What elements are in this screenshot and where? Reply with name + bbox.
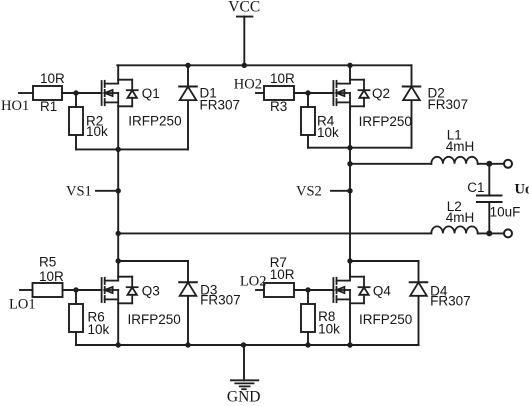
inductor L1: [431, 157, 477, 164]
wire phase B vertical: [349, 106, 351, 276]
node L1 tap junction: [347, 161, 352, 166]
resistor R6: [69, 304, 83, 332]
node rail Q3 junction: [116, 342, 121, 347]
svg-text:VCC: VCC: [228, 0, 260, 16]
node rail R8 junction: [305, 342, 310, 347]
capacitor C1: [477, 164, 502, 234]
node C1 top junction: [486, 161, 492, 167]
svg-text:10k: 10k: [86, 124, 108, 139]
svg-text:IRFP250: IRFP250: [128, 312, 181, 327]
wire LO1 stub: [20, 289, 33, 291]
svg-text:Q3: Q3: [142, 284, 160, 299]
node Q4 drain junction: [347, 258, 352, 263]
node rail Q4 junction: [347, 342, 352, 347]
diode D3: [179, 261, 197, 345]
wire Q3 drain to D3: [118, 260, 188, 262]
resistor R4: [301, 107, 315, 135]
svg-text:LO1: LO1: [9, 297, 36, 313]
wire ground rail: [76, 344, 419, 346]
svg-text:FR307: FR307: [430, 294, 471, 309]
node C1 bottom junction: [486, 230, 492, 236]
node VS1 junction: [116, 188, 121, 193]
node Q2 source junction: [347, 145, 352, 150]
svg-text:R3: R3: [270, 99, 287, 114]
svg-text:Q1: Q1: [142, 86, 160, 101]
diode D4: [410, 261, 428, 345]
wire R7 to Q4 gate: [294, 289, 333, 291]
svg-text:Uo: Uo: [515, 182, 529, 198]
wire R6 bottom: [75, 332, 77, 345]
svg-text:R1: R1: [40, 99, 57, 114]
svg-text:FR307: FR307: [200, 293, 241, 308]
svg-text:IRFP250: IRFP250: [128, 114, 181, 129]
svg-text:HO2: HO2: [234, 76, 262, 92]
svg-text:10R: 10R: [39, 269, 64, 284]
svg-text:GND: GND: [227, 389, 261, 406]
svg-text:VS2: VS2: [296, 184, 322, 200]
node Q3 drain junction: [116, 258, 121, 263]
ground symbol: [231, 345, 258, 389]
terminal output top: [504, 160, 512, 168]
wire Q1 source line: [76, 148, 188, 150]
wire Q1 drain riser: [117, 65, 119, 79]
inductor L2: [431, 226, 477, 233]
wire VS2 stub: [331, 190, 350, 192]
wire VS1 stub: [96, 190, 118, 192]
svg-text:FR307: FR307: [200, 98, 241, 113]
svg-text:4mH: 4mH: [446, 210, 475, 225]
node Q1 source junction: [116, 147, 121, 152]
wire to L2: [118, 232, 431, 234]
svg-text:VS1: VS1: [66, 184, 92, 200]
transistor Q3: [102, 277, 138, 304]
wire R4 bottom: [307, 135, 309, 148]
node Q2 drain junction: [347, 63, 352, 68]
diode D2: [403, 65, 421, 147]
wire Q2 source line: [308, 147, 412, 149]
wire junction to R2: [75, 93, 77, 107]
resistor R5: [33, 283, 63, 297]
svg-text:10R: 10R: [270, 267, 295, 282]
node D1 top junction: [185, 63, 190, 68]
wire R8 bottom: [307, 332, 309, 345]
svg-text:4mH: 4mH: [446, 139, 475, 154]
node VS2 junction: [347, 188, 352, 193]
svg-text:10k: 10k: [318, 322, 340, 337]
svg-text:10k: 10k: [88, 322, 110, 337]
resistor R2: [69, 107, 83, 135]
svg-text:IRFP250: IRFP250: [359, 312, 412, 327]
wire R5 to Q3 gate: [63, 289, 102, 291]
node R3-R4 junction: [305, 90, 310, 95]
wire Q2 drain riser: [349, 65, 351, 79]
svg-text:10uF: 10uF: [490, 205, 521, 220]
svg-text:Q2: Q2: [372, 86, 390, 101]
resistor R7: [264, 283, 294, 297]
transistor Q4: [333, 277, 369, 304]
svg-text:HO1: HO1: [1, 98, 29, 114]
power VCC symbol: [237, 17, 252, 66]
wire R2 bottom: [75, 135, 77, 149]
svg-text:10R: 10R: [270, 71, 295, 86]
node R5-R6 junction: [73, 287, 78, 292]
resistor R1: [33, 86, 62, 100]
wire L2 to terminal: [478, 232, 504, 234]
svg-text:Q4: Q4: [373, 284, 392, 299]
wire to L1: [350, 163, 431, 165]
wire Q3 source drop: [117, 303, 119, 345]
wire junction to R6: [75, 290, 77, 304]
wire R3 to Q2 gate: [294, 92, 333, 94]
svg-text:10k: 10k: [317, 125, 339, 140]
svg-text:R5: R5: [39, 255, 56, 270]
node R1-R2 junction: [73, 90, 78, 95]
svg-text:IRFP250: IRFP250: [359, 114, 412, 129]
node VCC junction: [242, 63, 247, 68]
node rail GND junction: [241, 342, 246, 347]
wire junction to R4: [307, 93, 309, 107]
transistor Q2: [333, 80, 369, 107]
wire HO2 stub: [256, 92, 264, 94]
diode D1: [179, 65, 197, 149]
node rail D3 junction: [185, 342, 190, 347]
wire HO1 stub: [19, 92, 33, 94]
wire L1 to terminal: [478, 163, 504, 165]
terminal output bottom: [504, 229, 512, 237]
resistor R8: [301, 304, 315, 332]
svg-text:10R: 10R: [40, 71, 65, 86]
svg-text:FR307: FR307: [428, 97, 469, 112]
svg-text:LO2: LO2: [240, 274, 267, 290]
transistor Q1: [102, 80, 138, 107]
wire junction to R8: [307, 290, 309, 304]
wire Q4 source drop: [349, 303, 351, 345]
wire phase A vertical: [117, 106, 119, 276]
resistor R3: [264, 86, 294, 100]
node R7-R8 junction: [305, 287, 310, 292]
wire LO2 stub: [256, 289, 264, 291]
svg-text:C1: C1: [467, 180, 484, 195]
node L2 tap junction: [116, 231, 121, 236]
wire top rail: [117, 64, 411, 66]
wire R1 to Q1 gate: [62, 92, 102, 94]
wire Q4 drain to D4: [350, 260, 419, 262]
